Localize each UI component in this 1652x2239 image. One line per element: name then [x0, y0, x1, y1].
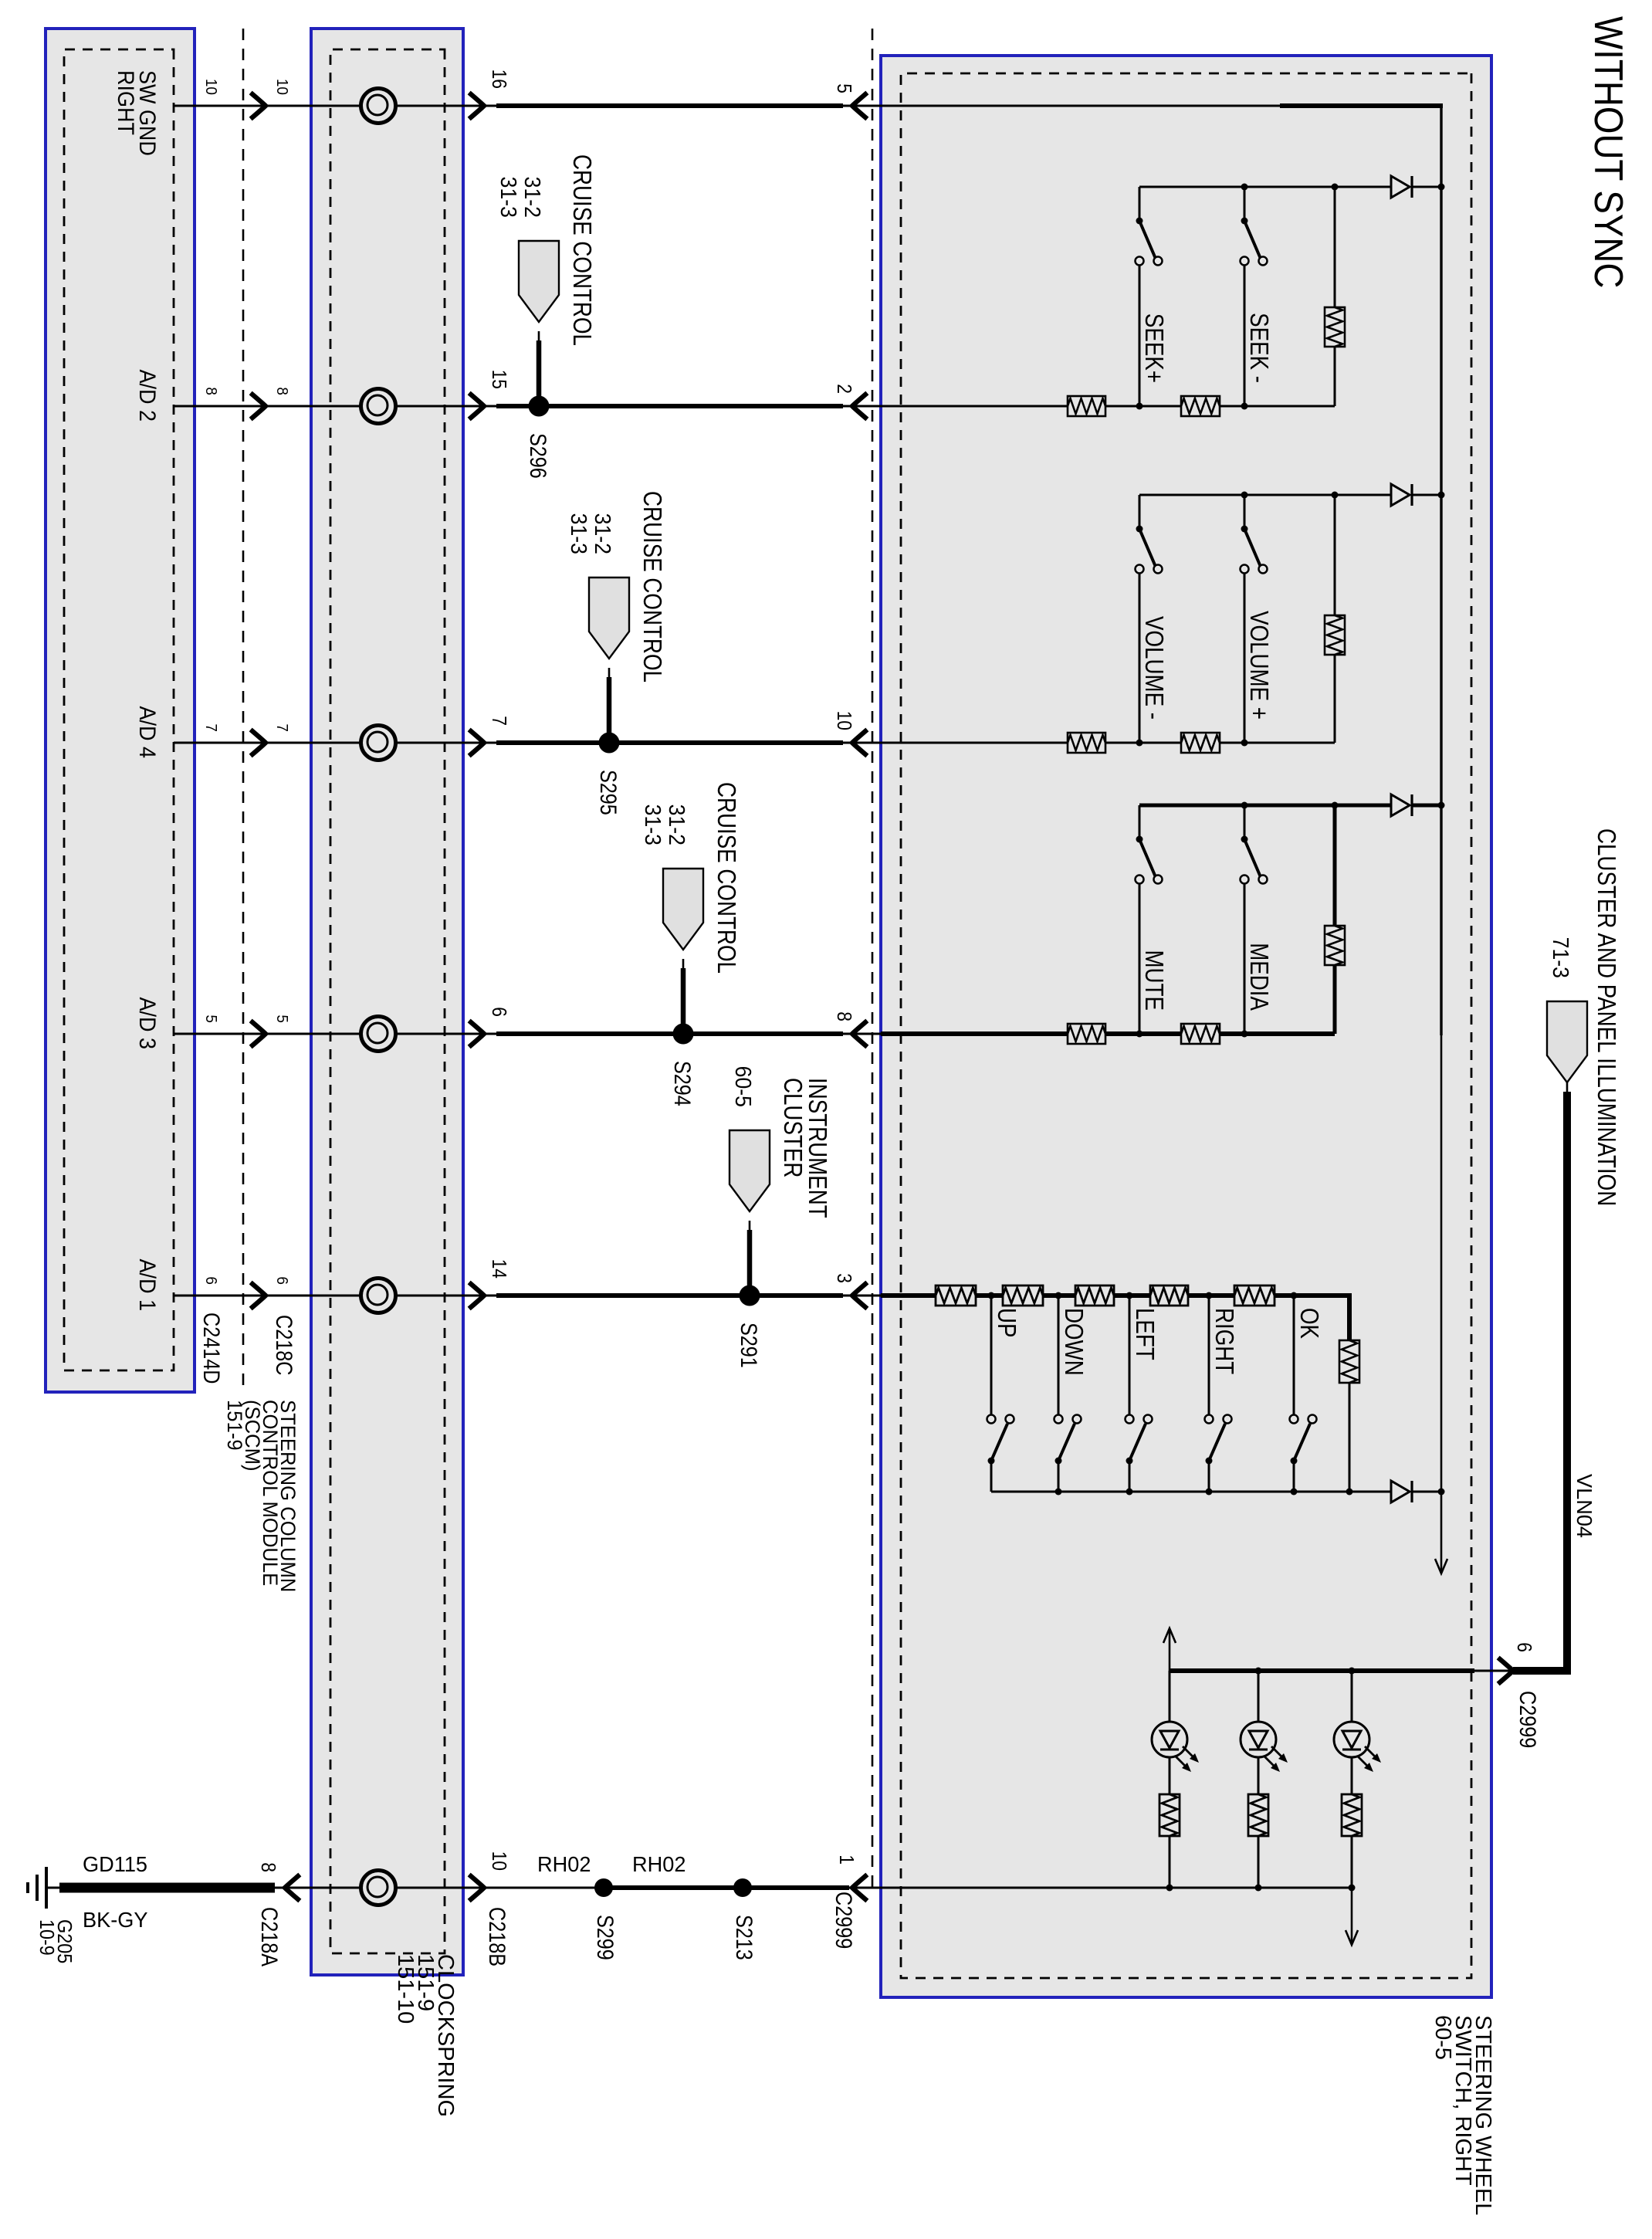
splice S296 junction dot [529, 396, 550, 417]
svg-text:6: 6 [488, 1007, 510, 1017]
connector C2999 pin 6 arrow [1500, 1659, 1513, 1682]
splice S291 junction dot [740, 1285, 760, 1306]
svg-text:31-3: 31-3 [496, 177, 521, 218]
harness boundary dashed line (below steering wheel switch box) [872, 29, 874, 1888]
svg-text:10: 10 [273, 79, 291, 95]
svg-text:7: 7 [273, 723, 291, 732]
resistor branch of group [1334, 187, 1336, 307]
wire A/D 2 from SCCM pin 8 to clockspring (thin) [174, 405, 311, 408]
svg-text:S291: S291 [736, 1323, 763, 1368]
switch SEEK - branch wire [1244, 187, 1246, 221]
svg-text:S299: S299 [593, 1915, 619, 1960]
junction dot row-VOLUME - [1136, 740, 1143, 747]
switch UP branch wire [990, 1296, 993, 1414]
connector C2999 arrow at box edge on A/D 1 wire [852, 1284, 865, 1307]
row wire inside box [881, 405, 1335, 408]
svg-text:BK-GY: BK-GY [83, 1908, 148, 1932]
trunk continuation open arrow [1435, 1559, 1447, 1573]
LED branch wire 1 [1169, 1671, 1171, 1722]
svg-text:A/D 1: A/D 1 [134, 1259, 161, 1311]
connector flag to CRUISE CONTROL [663, 869, 703, 950]
junction dot illumination rail - branch 2 [1255, 1668, 1262, 1675]
LED 1 [1152, 1722, 1187, 1757]
svg-text:VOLUME +: VOLUME + [1244, 611, 1273, 720]
svg-text:7: 7 [202, 723, 220, 732]
wire ground through clockspring (thin) [311, 1887, 463, 1889]
junction dot row-MUTE [1136, 1031, 1143, 1038]
svg-text:8: 8 [257, 1862, 279, 1872]
row wire inside box [881, 1031, 1335, 1036]
junction dot on rail [1126, 1489, 1133, 1495]
svg-text:SEEK+: SEEK+ [1139, 313, 1168, 383]
switch SEEK - contact circles [1259, 257, 1268, 266]
wire SW GND RIGHT through clockspring (thin) [311, 105, 463, 107]
switch LEFT contact circles [1126, 1415, 1134, 1424]
wire ground to clockspring (thin) [275, 1887, 311, 1889]
switch DOWN blade [1058, 1424, 1075, 1461]
svg-text:RH02: RH02 [632, 1852, 686, 1876]
splice S294 junction dot [673, 1024, 694, 1045]
resistor in series (SEEK+) [1068, 396, 1105, 416]
svg-text:DOWN: DOWN [1059, 1308, 1088, 1376]
svg-text:GD115: GD115 [83, 1852, 147, 1876]
wire A/D 1 through clockspring (thin) [311, 1295, 463, 1297]
clockspring coil on SW GND RIGHT wire [361, 89, 396, 124]
wire A/D 2 from clockspring to steering wheel switch box (thick) [463, 405, 498, 408]
steering wheel switch box inner dashed border [901, 73, 1471, 1978]
switch UP contact circles [987, 1415, 996, 1424]
svg-text:VLN04: VLN04 [1572, 1474, 1596, 1538]
resistor (pull-up) of group [1325, 926, 1345, 965]
switch OK contact circles [1290, 1415, 1298, 1424]
wire stub from flag to splice S295 (thick) [608, 668, 611, 679]
connector arrow above clockspring on A/D 3 wire [471, 1022, 484, 1045]
splice S295 junction dot [599, 733, 620, 754]
resistor in series (MEDIA) [1181, 1024, 1220, 1044]
clockspring coil on A/D 2 wire [361, 389, 396, 424]
SCCM box inner dashed border [64, 49, 174, 1370]
switch MEDIA branch wire [1244, 805, 1246, 839]
svg-text:CRUISE CONTROL: CRUISE CONTROL [567, 154, 596, 346]
wire stub from flag to splice S296 (thick) [538, 331, 540, 342]
junction dot row-SEEK+ [1136, 403, 1143, 410]
series resistor on A/D 1 ladder [1075, 1285, 1114, 1306]
junction dot on A/D 1 ladder (DOWN) [1055, 1292, 1062, 1299]
wire A/D 2 through clockspring (thin) [311, 405, 463, 408]
switch LEFT blade [1129, 1424, 1146, 1461]
wire S213 to switch box pin 1 (thick) [743, 1885, 849, 1890]
svg-text:C2999: C2999 [1515, 1691, 1542, 1748]
resistor in series (VOLUME -) [1068, 733, 1105, 753]
diode of UP/DOWN group [1391, 1481, 1410, 1502]
connector flag to CRUISE CONTROL [589, 578, 629, 659]
svg-text:CLUSTER AND PANEL ILLUMINATION: CLUSTER AND PANEL ILLUMINATION [1592, 828, 1620, 1206]
wire RH02 from S299 to S213 (thick) [604, 1885, 743, 1890]
LED 2 [1241, 1722, 1276, 1757]
svg-text:10-9: 10-9 [36, 1919, 57, 1956]
connector arrow above clockspring on A/D 2 wire [471, 395, 484, 418]
resistor (pull-up) of UP/DOWN group [1339, 1340, 1359, 1383]
junction dot LED branch 3 [1349, 1885, 1356, 1892]
switch SEEK - blade [1244, 221, 1261, 259]
rail of SEEK+/SEEK - group [1412, 186, 1441, 188]
resistor branch of group [1333, 805, 1337, 926]
svg-text:S295: S295 [596, 770, 622, 815]
clockspring coil on A/D 4 wire [361, 726, 396, 760]
svg-text:15: 15 [488, 370, 510, 389]
svg-text:31-2: 31-2 [520, 177, 545, 218]
svg-text:3: 3 [833, 1273, 855, 1283]
connector arrow above clockspring (ground wire) [471, 1876, 484, 1899]
resistor in series (MUTE) [1068, 1024, 1105, 1044]
junction dot rail-MEDIA branch [1241, 802, 1248, 809]
wire stub from flag to splice S294 (thick) [682, 959, 685, 970]
svg-text:RIGHT: RIGHT [113, 70, 139, 135]
series resistor on A/D 1 ladder [1234, 1285, 1275, 1306]
switch RIGHT branch wire [1208, 1296, 1210, 1414]
switch RIGHT contact circles [1205, 1415, 1214, 1424]
svg-text:RIGHT: RIGHT [1210, 1308, 1238, 1374]
connector C218A arrow [285, 1876, 298, 1899]
steering wheel switch box (grey, blue border) [881, 56, 1491, 1997]
svg-text:S213: S213 [732, 1915, 758, 1960]
wire A/D 1 from clockspring to steering wheel switch box (thick) [463, 1295, 498, 1297]
connector C2414D/C218C arrow on A/D 1 wire [252, 1284, 266, 1307]
svg-text:10: 10 [488, 1851, 510, 1871]
switch MEDIA contact circles [1259, 876, 1268, 884]
svg-text:RH02: RH02 [537, 1852, 591, 1876]
rail of MUTE/MEDIA group [1412, 804, 1441, 808]
resistor branch of group [1334, 495, 1336, 615]
resistor (pull-up) of group [1325, 615, 1345, 655]
junction dot row-SEEK - [1241, 403, 1248, 410]
junction dot rail-resistor branch [1332, 802, 1339, 809]
wire A/D 4 through clockspring (thin) [311, 742, 463, 744]
svg-text:UP: UP [992, 1308, 1021, 1338]
row wire A/D 1 inside box (thick, with series resistors) [881, 1293, 1352, 1298]
wire SW GND RIGHT inside box (thick segment to trunk corner) [1280, 103, 1443, 108]
ground symbol G205 [46, 1887, 59, 1889]
switch MUTE pivot [1136, 836, 1143, 843]
switch UP blade [991, 1424, 1007, 1461]
junction dot LED branch 2 on C2999 pin1 wire [1255, 1885, 1262, 1892]
rail of VOLUME -/VOLUME + group [1412, 494, 1441, 496]
svg-text:7: 7 [488, 716, 510, 726]
svg-text:10: 10 [833, 711, 855, 730]
switch SEEK+ pivot [1136, 218, 1143, 225]
svg-text:8: 8 [273, 387, 291, 395]
splice S299 dot [594, 1878, 613, 1897]
rail of UP/DOWN/LEFT/RIGHT/OK group [1412, 1491, 1441, 1493]
clockspring coil on ground wire [361, 1871, 396, 1905]
flag CLUSTER AND PANEL ILLUMINATION [1547, 1001, 1587, 1082]
switch OK blade [1294, 1424, 1310, 1461]
LED series resistor 1 [1159, 1794, 1180, 1836]
connector arrow above clockspring on A/D 4 wire [471, 731, 484, 754]
clockspring box (grey, blue border) [311, 29, 463, 1975]
wire A/D 3 from clockspring to steering wheel switch box (thick) [463, 1033, 498, 1035]
svg-text:C2999: C2999 [831, 1892, 858, 1949]
svg-text:6: 6 [202, 1276, 220, 1285]
junction dot on rail [1206, 1489, 1213, 1495]
junction dot rail-resistor branch [1332, 184, 1339, 191]
diode of VOLUME -/VOLUME + group [1391, 484, 1410, 506]
illumination rail wire (thick) [1170, 1668, 1474, 1673]
harness boundary dashed line (between clockspring and SCCM) [242, 29, 245, 1387]
svg-text:CRUISE CONTROL: CRUISE CONTROL [638, 491, 666, 683]
wire A/D 3 through clockspring (thin) [311, 1033, 463, 1035]
svg-text:31-2: 31-2 [665, 804, 689, 845]
svg-text:10: 10 [202, 79, 220, 95]
svg-text:A/D 4: A/D 4 [134, 706, 161, 759]
svg-text:A/D 2: A/D 2 [134, 370, 161, 422]
switch OK pivot [1291, 1458, 1298, 1465]
LED series resistor 3 [1342, 1794, 1362, 1836]
switch DOWN branch wire [1058, 1296, 1060, 1414]
svg-text:8: 8 [202, 387, 220, 395]
wire A/D 4 from SCCM pin 7 to clockspring (thin) [174, 742, 311, 744]
connector C2999 arrow at box edge on A/D 2 wire [852, 395, 865, 418]
svg-text:C218A: C218A [257, 1907, 283, 1966]
svg-text:LEFT: LEFT [1130, 1308, 1159, 1360]
switch VOLUME - pivot [1136, 526, 1143, 533]
switch LEFT branch wire [1129, 1296, 1131, 1414]
row wire inside box [881, 742, 1335, 744]
corner + OK resistor branch (thick) [1347, 1296, 1352, 1340]
svg-text:6: 6 [273, 1276, 291, 1285]
svg-text:CRUISE CONTROL: CRUISE CONTROL [712, 782, 740, 974]
connector C2414D/C218C arrow on SW GND RIGHT wire [252, 94, 266, 117]
junction dot on A/D 1 ladder (OK) [1291, 1292, 1298, 1299]
wire C2999 pin 1 inside box [881, 1887, 1352, 1889]
svg-text:2: 2 [833, 384, 855, 394]
svg-text:60-5: 60-5 [731, 1066, 756, 1107]
switch OK branch wire [1293, 1296, 1295, 1414]
diode of SEEK+/SEEK - group [1391, 176, 1410, 198]
svg-text:5: 5 [273, 1014, 291, 1023]
svg-text:6: 6 [1513, 1642, 1535, 1652]
LED 3 [1334, 1722, 1369, 1757]
connector C2999 arrow at box pin 1 [852, 1876, 865, 1899]
switch MEDIA blade [1244, 839, 1261, 877]
clockspring coil on A/D 3 wire [361, 1017, 396, 1052]
svg-text:C2414D: C2414D [199, 1313, 225, 1384]
LED branch 3 continuation + open arrow [1351, 1888, 1353, 1943]
svg-text:5: 5 [833, 83, 855, 93]
connector C2414D/C218C arrow on A/D 3 wire [252, 1022, 266, 1045]
switch VOLUME - blade [1139, 529, 1156, 567]
SCCM box (grey, blue border) [46, 29, 195, 1392]
svg-text:S296: S296 [526, 433, 552, 479]
svg-text:WITHOUT SYNC: WITHOUT SYNC [1586, 16, 1630, 288]
svg-text:151-10: 151-10 [393, 1954, 418, 2024]
wire SW GND RIGHT from SCCM pin 10 to clockspring (thin) [174, 105, 311, 107]
junction dot LED branch 1 on C2999 pin1 wire [1166, 1885, 1173, 1892]
junction dot row-MEDIA [1241, 1031, 1248, 1038]
wire RH02 from C218B to splice S299 (thin) [463, 1887, 604, 1889]
switch UP pivot [988, 1458, 995, 1465]
svg-text:31-3: 31-3 [641, 804, 665, 845]
series resistor on A/D 1 ladder [1003, 1285, 1043, 1306]
switch RIGHT pivot [1206, 1458, 1213, 1465]
diode of MUTE/MEDIA group [1391, 794, 1410, 816]
svg-text:CLUSTER: CLUSTER [778, 1078, 807, 1177]
junction dot illumination rail - branch 3 [1349, 1668, 1356, 1675]
connector C2414D/C218C arrow on A/D 2 wire [252, 395, 266, 418]
connector arrow above clockspring on SW GND RIGHT wire [471, 94, 484, 117]
junction dot rail-resistor branch [1332, 492, 1339, 499]
clockspring coil on A/D 1 wire [361, 1279, 396, 1313]
switch MEDIA pivot [1241, 836, 1248, 843]
connector C2999 arrow at box edge on SW GND RIGHT wire [852, 94, 865, 117]
connector flag to CRUISE CONTROL [519, 241, 559, 322]
junction dot row-VOLUME + [1241, 740, 1248, 747]
switch SEEK+ branch wire [1139, 187, 1141, 221]
svg-text:71-3: 71-3 [1549, 937, 1573, 978]
switch SEEK+ contact circles [1154, 257, 1163, 266]
svg-text:MEDIA: MEDIA [1244, 943, 1273, 1011]
svg-text:OK: OK [1295, 1308, 1323, 1339]
LED branch wire 3 [1351, 1671, 1353, 1722]
resistor in series (VOLUME +) [1181, 733, 1220, 753]
svg-text:31-2: 31-2 [591, 513, 615, 554]
junction dot on rail [1346, 1489, 1353, 1495]
switch RIGHT blade [1209, 1424, 1225, 1461]
switch VOLUME + pivot [1241, 526, 1248, 533]
junction dot on rail [1291, 1489, 1298, 1495]
svg-text:151-9: 151-9 [223, 1400, 247, 1451]
junction dot on rail [1055, 1489, 1062, 1495]
wire SW GND RIGHT inside box (thin segment) [881, 105, 1280, 107]
switch VOLUME + branch wire [1244, 495, 1246, 529]
junction dot on A/D 1 ladder (RIGHT) [1206, 1292, 1213, 1299]
LED branch wire 2 [1258, 1671, 1260, 1722]
switch SEEK - pivot [1241, 218, 1248, 225]
connector arrow above clockspring on A/D 1 wire [471, 1284, 484, 1307]
connector C2999 arrow at box edge on A/D 3 wire [852, 1022, 865, 1045]
switch DOWN contact circles [1055, 1415, 1063, 1424]
wire A/D 1 from SCCM pin 6 to clockspring (thin) [174, 1295, 311, 1297]
switch LEFT pivot [1126, 1458, 1133, 1465]
junction dot rail-trunk (5-switch group) [1438, 1489, 1445, 1495]
LED series resistor 2 [1248, 1794, 1268, 1836]
switch DOWN pivot [1055, 1458, 1062, 1465]
wire stub from flag to splice S291 (thick) [749, 1221, 751, 1231]
svg-text:VOLUME -: VOLUME - [1139, 616, 1168, 720]
junction dot on A/D 1 ladder (UP) [988, 1292, 995, 1299]
series resistor on A/D 1 ladder [936, 1285, 976, 1306]
svg-text:C218B: C218B [485, 1907, 511, 1966]
trunk wire from pin 5 to switch group diodes [1440, 106, 1442, 1035]
junction dot rail-trunk [1438, 492, 1445, 499]
connector flag to INSTRUMENT/CLUSTER [730, 1130, 770, 1211]
wire GD115 BK-GY (heavy gauge ground strap) [59, 1883, 275, 1893]
wire SW GND RIGHT from clockspring to steering wheel switch box (thick) [463, 105, 498, 107]
connector C2414D/C218C arrow on A/D 4 wire [252, 731, 266, 754]
svg-text:SEEK -: SEEK - [1244, 313, 1273, 383]
svg-text:S294: S294 [670, 1061, 696, 1106]
svg-text:60-5: 60-5 [1430, 2015, 1455, 2060]
junction dot rail-trunk [1438, 802, 1445, 809]
svg-text:14: 14 [488, 1259, 510, 1279]
wire A/D 4 from clockspring to steering wheel switch box (thick) [463, 742, 498, 744]
connector C2999 arrow at box edge on A/D 4 wire [852, 731, 865, 754]
illumination rail continuation open arrow (left) [1169, 1631, 1171, 1671]
clockspring box inner dashed border [330, 49, 445, 1953]
switch MUTE blade [1139, 839, 1156, 877]
switch VOLUME + blade [1244, 529, 1261, 567]
svg-text:A/D 3: A/D 3 [134, 998, 161, 1049]
wire VLN04 feed (very thick) with corner [1513, 1667, 1571, 1675]
svg-text:16: 16 [488, 69, 510, 89]
series resistor on A/D 1 ladder [1150, 1285, 1188, 1306]
svg-text:8: 8 [833, 1011, 855, 1021]
splice S213 dot [733, 1878, 752, 1897]
svg-text:C218C: C218C [272, 1315, 298, 1375]
svg-text:31-3: 31-3 [567, 513, 591, 554]
switch VOLUME + contact circles [1259, 565, 1268, 574]
junction dot on A/D 1 ladder (LEFT) [1126, 1292, 1133, 1299]
switch MUTE branch wire [1139, 805, 1141, 839]
resistor in series (SEEK -) [1181, 396, 1220, 416]
svg-text:1: 1 [835, 1855, 858, 1865]
switch SEEK+ blade [1139, 221, 1156, 259]
junction dot rail-trunk [1438, 184, 1445, 191]
junction dot rail-SEEK - branch [1241, 184, 1248, 191]
switch VOLUME - contact circles [1154, 565, 1163, 574]
wire A/D 3 from SCCM pin 5 to clockspring (thin) [174, 1033, 311, 1035]
switch VOLUME - branch wire [1139, 495, 1141, 529]
resistor (pull-up) of group [1325, 307, 1345, 347]
svg-text:MUTE: MUTE [1139, 950, 1168, 1011]
switch MUTE contact circles [1154, 876, 1163, 884]
svg-text:5: 5 [202, 1014, 220, 1023]
junction dot rail-VOLUME + branch [1241, 492, 1248, 499]
